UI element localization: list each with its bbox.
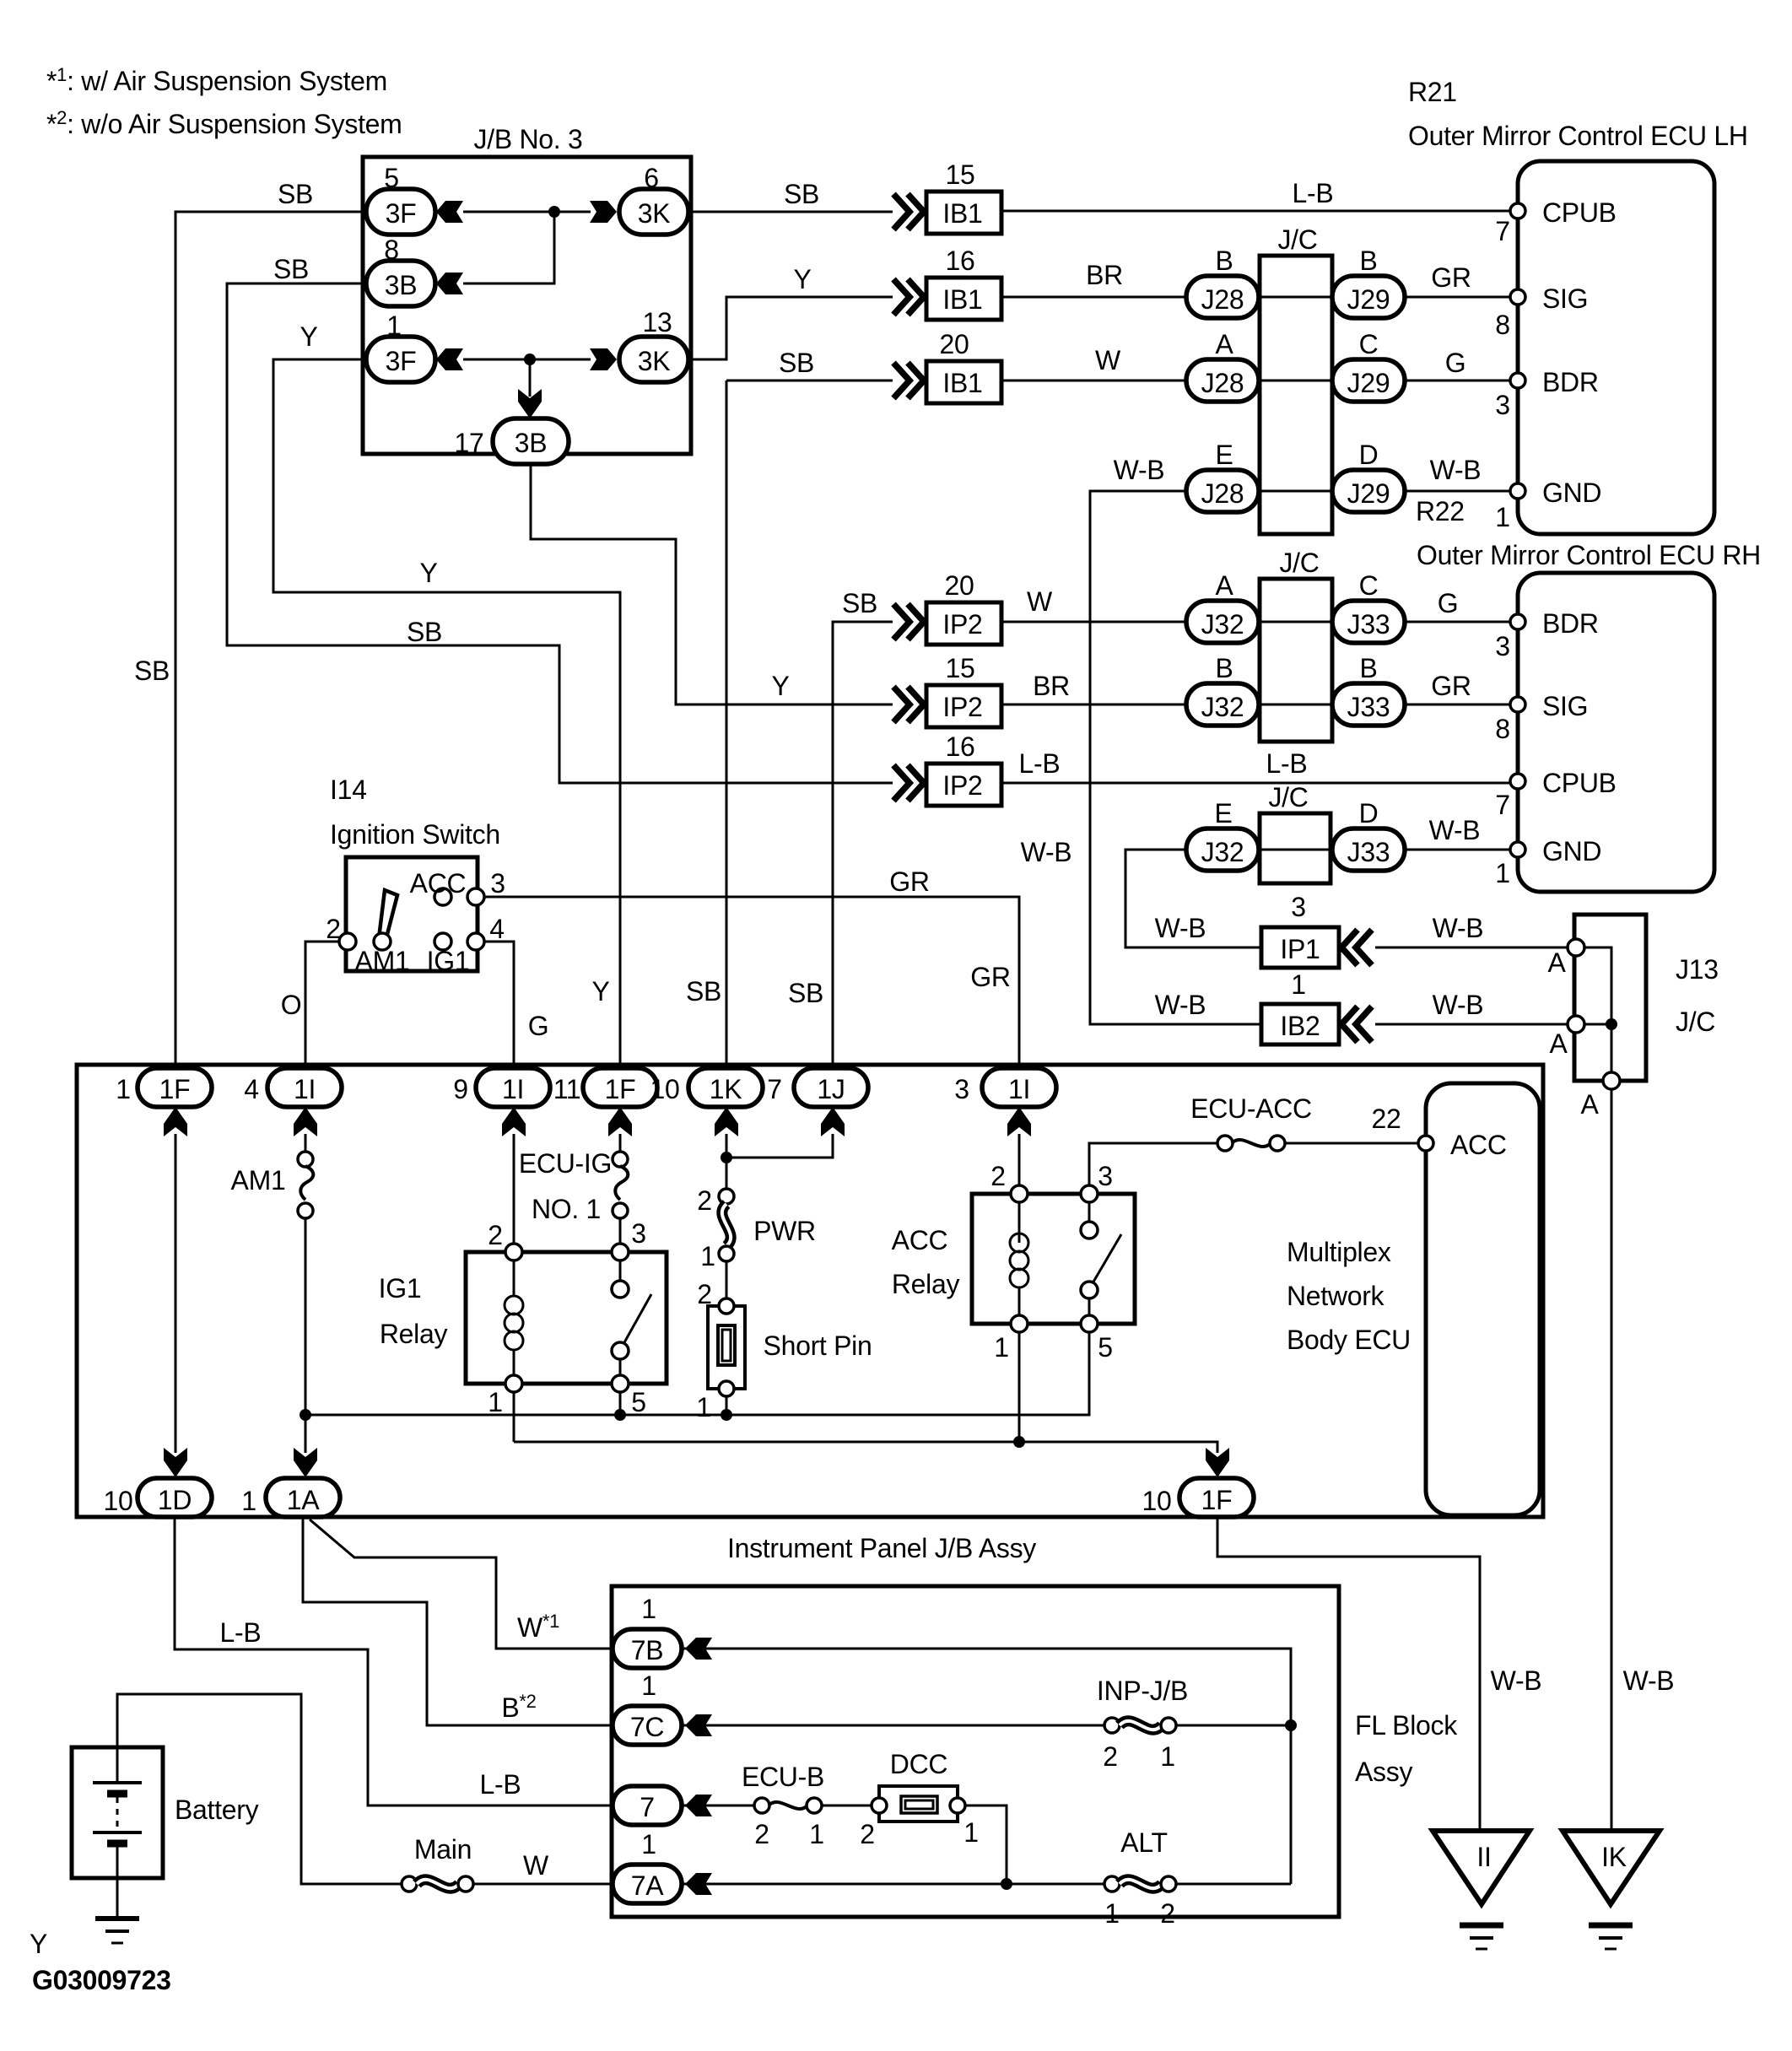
svg-text:1K: 1K <box>710 1074 742 1104</box>
svg-text:J13: J13 <box>1676 954 1719 985</box>
svg-text:J33: J33 <box>1347 837 1390 867</box>
svg-text:NO. 1: NO. 1 <box>532 1194 601 1224</box>
svg-text:11: 11 <box>553 1074 581 1104</box>
svg-text:BDR: BDR <box>1542 608 1599 639</box>
wire battery - to ground <box>116 1843 119 1919</box>
svg-text:SIG: SIG <box>1542 283 1588 314</box>
wire 1I-3 down to ACC relay pin 2 <box>1018 1134 1021 1190</box>
svg-text:5: 5 <box>384 163 399 193</box>
wire inside J/B: 3F-5 to 3K-6 <box>463 211 591 213</box>
svg-text:W: W <box>523 1850 549 1881</box>
receiving arrow at 3F-1 <box>436 348 463 370</box>
fuse ECU-IG NO.1 <box>619 1134 622 1152</box>
svg-text:GR: GR <box>1431 262 1471 293</box>
svg-text:Instrument Panel J/B Assy: Instrument Panel J/B Assy <box>727 1533 1036 1563</box>
svg-text:R22: R22 <box>1416 496 1465 526</box>
ACC relay coil <box>1018 1202 1021 1243</box>
svg-text:7C: 7C <box>630 1712 664 1742</box>
fuse ECU-B <box>754 1798 769 1813</box>
in-line connector IP2-16 <box>893 765 909 801</box>
svg-text:5: 5 <box>1098 1332 1113 1363</box>
wire W-B J13 to ground IK <box>1611 1089 1613 1831</box>
svg-text:A: A <box>1549 1028 1568 1059</box>
in-line connector IP2-20 <box>893 604 909 640</box>
svg-text:1: 1 <box>696 1392 711 1422</box>
FL pin 7 <box>613 1786 682 1825</box>
svg-text:B: B <box>1215 653 1233 683</box>
svg-text:L-B: L-B <box>480 1769 521 1800</box>
up arrow under 1I-4 <box>294 1107 317 1136</box>
svg-text:IB1: IB1 <box>942 198 982 229</box>
svg-text:Y: Y <box>771 671 789 701</box>
wire inside J13 <box>1576 947 1611 1081</box>
connector J33-B <box>1332 683 1405 726</box>
svg-text:7A: 7A <box>631 1870 664 1901</box>
svg-text:W-B: W-B <box>1433 990 1484 1020</box>
junction dot <box>548 206 560 218</box>
svg-text:ACC: ACC <box>1450 1130 1507 1160</box>
svg-text:L-B: L-B <box>1293 178 1334 208</box>
svg-text:INP-J/B: INP-J/B <box>1097 1676 1188 1706</box>
svg-text:3B: 3B <box>515 428 548 458</box>
wire battery + up and to Main fuse <box>117 1694 402 1884</box>
in-line connector IB1-15 <box>893 194 909 229</box>
svg-text:7: 7 <box>640 1792 655 1822</box>
junction dot <box>524 354 536 365</box>
svg-text:1: 1 <box>1104 1898 1120 1929</box>
ground II <box>1433 1831 1530 1904</box>
junction connector J/C box RH lower <box>1260 813 1331 883</box>
wire W-B IB2 to J13 pin A2 <box>1375 1023 1576 1026</box>
svg-text:W-B: W-B <box>1155 990 1206 1020</box>
svg-text:SB: SB <box>842 588 877 618</box>
svg-text:SB: SB <box>686 976 721 1007</box>
svg-text:1: 1 <box>386 310 402 341</box>
fuse PWR <box>719 1189 734 1204</box>
wire 7 to ECU-B fuse <box>683 1805 755 1807</box>
bus2 wire <box>514 1442 1217 1453</box>
svg-text:3: 3 <box>631 1218 646 1249</box>
svg-text:B: B <box>1215 246 1233 276</box>
svg-text:Battery: Battery <box>175 1795 259 1825</box>
svg-text:Outer Mirror Control ECU LH: Outer Mirror Control ECU LH <box>1408 121 1748 151</box>
svg-text:IB2: IB2 <box>1280 1011 1320 1041</box>
svg-text:PWR: PWR <box>753 1216 816 1246</box>
svg-text:3: 3 <box>1098 1161 1113 1191</box>
pin CPUB 7 <box>1510 774 1525 789</box>
svg-text:ECU-ACC: ECU-ACC <box>1190 1093 1312 1124</box>
svg-text:IP2: IP2 <box>942 692 982 722</box>
connector J32-B <box>1186 683 1259 726</box>
connector J32-E <box>1186 828 1259 871</box>
svg-text:Y: Y <box>30 1929 47 1959</box>
panel top pin 1J-7 <box>794 1068 868 1107</box>
svg-text:J33: J33 <box>1347 609 1390 640</box>
IG1 relay switch <box>619 1260 622 1281</box>
svg-text:B: B <box>1359 653 1377 683</box>
wire SB 1K-10 to IB1-20 <box>726 381 728 1070</box>
ACC relay switch <box>1088 1202 1091 1222</box>
switch lever <box>379 890 397 941</box>
svg-text:2: 2 <box>488 1220 503 1250</box>
wire O ignition AM1-2 to panel 1I-4 <box>305 942 340 1070</box>
svg-text:L-B: L-B <box>220 1617 262 1648</box>
svg-text:SB: SB <box>273 254 309 284</box>
wire W-B J32-E/J33-D to ECU RH GND <box>1185 849 1518 851</box>
J/B No. 3 junction block box <box>363 157 691 454</box>
svg-text:W-B: W-B <box>1491 1665 1542 1696</box>
svg-text:Network: Network <box>1287 1281 1385 1311</box>
pin BDR 3 <box>1510 373 1525 388</box>
svg-text:7: 7 <box>767 1074 782 1104</box>
wire W-B 1F-10 to ground II <box>1217 1517 1480 1831</box>
DCC component <box>879 1786 958 1822</box>
ignition pin 2 <box>339 933 356 950</box>
fuse ALT <box>1104 1876 1120 1892</box>
svg-text:DCC: DCC <box>890 1749 947 1779</box>
svg-text:J/C: J/C <box>1268 782 1308 812</box>
svg-text:1F: 1F <box>159 1074 191 1104</box>
svg-text:W: W <box>1027 586 1053 617</box>
wire PWR to short pin <box>726 1261 728 1299</box>
connector J28-E <box>1186 470 1259 512</box>
wire Y 3B-17 to IP2-15 <box>531 464 893 704</box>
svg-text:Outer Mirror Control ECU RH: Outer Mirror Control ECU RH <box>1417 540 1761 570</box>
fuse ECU-ACC <box>1217 1136 1233 1151</box>
svg-text:1: 1 <box>809 1819 824 1849</box>
svg-text:J28: J28 <box>1201 284 1244 315</box>
connector pin 3F-5 <box>366 189 435 235</box>
svg-text:G: G <box>1445 348 1466 378</box>
svg-text:3: 3 <box>490 868 505 899</box>
wire G ignition IG1-4 to panel 1I-9 <box>483 942 514 1070</box>
panel top pin 1K-10 <box>688 1068 763 1107</box>
svg-text:D: D <box>1359 798 1379 828</box>
svg-text:SIG: SIG <box>1542 691 1588 721</box>
in-line connector IP1 <box>1261 927 1339 968</box>
connector pin 3K-6 <box>619 189 688 235</box>
svg-text:3: 3 <box>1495 390 1510 420</box>
IG1 relay coil <box>513 1260 515 1297</box>
svg-text:BR: BR <box>1086 260 1123 290</box>
svg-text:Ignition Switch: Ignition Switch <box>330 819 500 850</box>
svg-text:1I: 1I <box>502 1074 524 1104</box>
svg-text:SB: SB <box>784 179 819 209</box>
svg-text:W-B: W-B <box>1021 837 1072 867</box>
in-line connector IP2-15 <box>893 687 909 722</box>
svg-text:W-B: W-B <box>1430 455 1482 485</box>
svg-text:1: 1 <box>1291 969 1306 1000</box>
svg-text:IB1: IB1 <box>942 368 982 398</box>
wire SB from 3B-8 to IP2-16 <box>227 283 893 783</box>
svg-text:I14: I14 <box>330 775 367 805</box>
wire fuse to multiplex pin 22 <box>1284 1142 1426 1145</box>
bus1 wire <box>305 1332 1089 1415</box>
svg-text:IG1: IG1 <box>379 1273 422 1303</box>
svg-text:1: 1 <box>1495 502 1510 532</box>
panel bottom pin 1D-10 <box>138 1478 212 1517</box>
panel top pin 1F-1 <box>138 1068 212 1107</box>
ignition switch box <box>346 857 478 971</box>
svg-text:2: 2 <box>990 1161 1006 1191</box>
svg-text:1I: 1I <box>1008 1074 1030 1104</box>
pin GND 1 <box>1510 842 1525 857</box>
svg-text:W-B: W-B <box>1433 913 1484 943</box>
svg-text:8: 8 <box>1495 714 1510 744</box>
svg-text:Y: Y <box>591 976 609 1007</box>
wire IG1 pin1 to bus2 <box>513 1392 515 1442</box>
connector J28-A <box>1186 359 1259 402</box>
wire DCC to 7A line <box>965 1805 1007 1884</box>
svg-text:SB: SB <box>134 656 170 686</box>
svg-text:1F: 1F <box>1201 1485 1233 1515</box>
svg-text:1F: 1F <box>605 1074 636 1104</box>
svg-text:ACC: ACC <box>410 868 467 899</box>
svg-text:R21: R21 <box>1408 77 1457 107</box>
svg-text:1: 1 <box>994 1332 1009 1363</box>
svg-text:10: 10 <box>650 1074 680 1104</box>
wire 7C to INP-J/B fuse and junction <box>683 1724 1105 1727</box>
ignition pin IG1 <box>435 933 451 950</box>
pin CPUB 7 <box>1510 203 1525 219</box>
svg-text:CPUB: CPUB <box>1542 768 1617 798</box>
svg-text:W: W <box>1095 345 1121 375</box>
svg-text:J29: J29 <box>1347 478 1390 509</box>
svg-text:Multiplex: Multiplex <box>1287 1237 1391 1267</box>
svg-text:13: 13 <box>643 307 672 337</box>
svg-text:L-B: L-B <box>1019 748 1061 779</box>
wire Y 3K-13 to IB1-16 <box>691 297 893 359</box>
svg-text:1A: 1A <box>287 1485 320 1515</box>
svg-text:1: 1 <box>641 1670 656 1701</box>
down arrow above 1D-10 <box>164 1448 187 1477</box>
svg-text:CPUB: CPUB <box>1542 197 1617 228</box>
svg-text:1: 1 <box>700 1241 715 1271</box>
svg-text:ECU-IG: ECU-IG <box>519 1148 612 1179</box>
svg-text:1: 1 <box>488 1387 503 1417</box>
svg-text:BDR: BDR <box>1542 367 1599 397</box>
pin GND 1 <box>1510 483 1525 499</box>
svg-text:FL Block: FL Block <box>1355 1710 1458 1741</box>
svg-text:BR: BR <box>1033 671 1070 701</box>
svg-text:AM1: AM1 <box>231 1165 286 1196</box>
svg-text:1J: 1J <box>817 1074 845 1104</box>
junction connector J13 box <box>1574 915 1646 1081</box>
svg-text:3F: 3F <box>386 198 417 229</box>
svg-text:*1: w/ Air Suspension System: *1: w/ Air Suspension System <box>46 64 387 96</box>
svg-text:C: C <box>1359 329 1379 359</box>
junction connector J/C box RH upper <box>1260 579 1332 742</box>
svg-text:Relay: Relay <box>380 1319 448 1349</box>
svg-text:ECU-B: ECU-B <box>742 1762 824 1792</box>
svg-text:J/C: J/C <box>1279 548 1319 578</box>
svg-text:2: 2 <box>1160 1898 1175 1929</box>
wire W IP2-20 to J32-A <box>1001 621 1187 623</box>
up arrow under 1F-11 <box>608 1107 632 1136</box>
svg-text:17: 17 <box>455 428 484 458</box>
wire G J32-A/J33-C to ECU RH BDR <box>1187 621 1518 623</box>
svg-text:J28: J28 <box>1201 478 1244 509</box>
ECU LH box <box>1518 161 1714 534</box>
panel top pin 1F-11 <box>583 1068 657 1107</box>
IG1 relay pins <box>505 1244 522 1260</box>
wire 7A to ALT fuse <box>683 1883 1105 1886</box>
svg-text:3: 3 <box>1495 631 1510 661</box>
svg-text:5: 5 <box>631 1387 646 1417</box>
wire IG1 pin5 to bus1 <box>619 1392 622 1415</box>
svg-text:IP1: IP1 <box>1280 934 1320 964</box>
connector pin 3B-8 <box>366 261 435 306</box>
connector J29-B <box>1332 276 1405 318</box>
svg-text:16: 16 <box>946 731 975 762</box>
ground IK <box>1563 1831 1660 1904</box>
svg-text:Y: Y <box>300 321 317 352</box>
wire inside panel 1F-1 to 1D-10 <box>175 1134 177 1453</box>
svg-text:Y: Y <box>793 264 811 294</box>
svg-text:AM1: AM1 <box>355 946 410 976</box>
svg-text:J29: J29 <box>1347 368 1390 398</box>
wire BR IB1-16 to J28-B <box>1001 296 1187 299</box>
down arrow above 1F-10 <box>1206 1448 1229 1477</box>
panel bottom pin 1A-1 <box>266 1478 340 1517</box>
pin A top of J13 <box>1568 939 1584 956</box>
svg-text:8: 8 <box>384 235 399 265</box>
connector pin 3B-17 <box>493 418 569 464</box>
wire Y from 3F-1 to panel 1F-11 <box>273 359 620 1070</box>
ignition pin AM1 <box>374 933 391 950</box>
battery box <box>72 1747 163 1878</box>
wire W-B IP1 to J13 pin A <box>1375 947 1576 949</box>
svg-text:G: G <box>1438 588 1459 618</box>
svg-text:7: 7 <box>1495 216 1510 246</box>
pin SIG 8 <box>1510 697 1525 712</box>
svg-text:J/C: J/C <box>1676 1007 1715 1037</box>
svg-text:IP2: IP2 <box>942 770 982 801</box>
ACC relay box <box>972 1194 1135 1324</box>
pin SIG 8 <box>1510 289 1525 305</box>
wire W*1 1A-1 to FL 7B <box>310 1519 613 1649</box>
svg-text:W-B: W-B <box>1429 815 1481 845</box>
up arrow under 1K-10 <box>715 1107 738 1136</box>
connector J28-B <box>1186 276 1259 318</box>
in-line connector IB1-16 <box>893 279 909 315</box>
svg-text:3K: 3K <box>638 198 671 229</box>
svg-text:15: 15 <box>946 159 975 190</box>
svg-text:Relay: Relay <box>892 1269 960 1299</box>
multiplex network body ECU box <box>1426 1083 1540 1515</box>
svg-text:IK: IK <box>1601 1842 1627 1872</box>
svg-text:2: 2 <box>697 1185 712 1216</box>
svg-text:SB: SB <box>407 617 442 647</box>
svg-text:G: G <box>528 1011 549 1041</box>
svg-text:SB: SB <box>779 348 814 378</box>
svg-text:10: 10 <box>104 1486 133 1516</box>
connector pin 3F-1 <box>366 337 435 382</box>
svg-text:J28: J28 <box>1201 368 1244 398</box>
svg-text:3: 3 <box>1291 892 1306 922</box>
svg-text:J32: J32 <box>1201 837 1244 867</box>
svg-text:D: D <box>1359 440 1379 470</box>
svg-text:15: 15 <box>946 653 975 683</box>
fuse INP-J/B <box>1104 1718 1120 1733</box>
branch to 1J-7 <box>726 1134 833 1158</box>
svg-text:16: 16 <box>946 246 975 276</box>
svg-text:W-B: W-B <box>1114 455 1165 485</box>
FL pin 7B <box>613 1629 682 1668</box>
wire L-B IP2-16 to ECU RH CPUB <box>1001 782 1518 785</box>
sending arrow at 3K-13 <box>590 348 617 370</box>
instrument panel J/B assy box <box>77 1065 1543 1517</box>
FL block assy box <box>612 1586 1339 1917</box>
svg-text:G03009723: G03009723 <box>32 1965 171 1995</box>
svg-text:IP2: IP2 <box>942 609 982 640</box>
sending arrow at 3K-6 <box>590 201 617 223</box>
svg-text:O: O <box>281 990 302 1020</box>
svg-text:4: 4 <box>244 1074 259 1104</box>
in-line connector IB1-20 <box>893 363 909 398</box>
up arrow under 1F-1 <box>164 1107 187 1136</box>
svg-text:4: 4 <box>489 914 505 944</box>
wire W Main fuse to FL 7A <box>473 1883 613 1886</box>
svg-text:1: 1 <box>641 1829 656 1859</box>
svg-text:9: 9 <box>453 1074 468 1104</box>
svg-text:Y: Y <box>419 558 437 588</box>
connector J33-D <box>1332 828 1405 871</box>
panel top pin 1I-4 <box>267 1068 342 1107</box>
svg-text:W-B: W-B <box>1623 1665 1675 1696</box>
in-line connector IB2 <box>1261 1004 1339 1044</box>
junction connector J/C box LH <box>1260 256 1332 534</box>
svg-text:Assy: Assy <box>1355 1757 1412 1787</box>
pin A bottom of J13 <box>1603 1072 1620 1089</box>
svg-text:GND: GND <box>1542 478 1601 508</box>
svg-text:8: 8 <box>1495 310 1510 340</box>
wire inside J/B: branch down to 3B-17 <box>529 359 532 397</box>
wire short pin to bus1 <box>726 1396 728 1415</box>
wire SB from 3F-5 to panel 1F-1 <box>175 212 366 1070</box>
battery cell symbol <box>116 1747 119 1783</box>
svg-text:A: A <box>1580 1089 1599 1120</box>
FL pin 7C <box>613 1706 682 1745</box>
wire 7B to right loop <box>683 1649 1291 1884</box>
svg-text:A: A <box>1215 570 1233 601</box>
IG1 relay box <box>466 1252 667 1384</box>
battery ground symbol <box>95 1916 139 1921</box>
svg-text:1D: 1D <box>158 1485 192 1515</box>
down arrow above 1A-1 <box>294 1448 317 1477</box>
wire L-B IB1-15 to ECU LH CPUB <box>1001 210 1518 213</box>
wire 1K-10 down, PWR fuse chain <box>726 1134 728 1190</box>
svg-text:2: 2 <box>1103 1741 1118 1772</box>
wire SB 3K-6 to IB1-15 <box>691 211 893 213</box>
fuse Main <box>402 1876 417 1892</box>
svg-text:Body ECU: Body ECU <box>1287 1325 1411 1355</box>
svg-text:J29: J29 <box>1347 284 1390 315</box>
pin BDR 3 <box>1510 614 1525 629</box>
wire L-B 1D-10 to FL 7 <box>175 1517 613 1805</box>
wire fuse to DCC <box>821 1805 879 1807</box>
svg-text:GR: GR <box>1431 671 1471 701</box>
panel bottom pin 1F-10 <box>1179 1478 1254 1517</box>
svg-text:22: 22 <box>1372 1104 1401 1134</box>
wire fuse to relay pin 3 <box>619 1217 622 1249</box>
wire W-B J32-E to IP1 <box>1125 850 1261 947</box>
wire W-B J28-E/J29-D to ECU LH GND, down to IB2 <box>1090 491 1518 1024</box>
svg-text:1: 1 <box>116 1074 131 1104</box>
svg-text:3F: 3F <box>386 346 417 376</box>
FL pin 7A <box>613 1865 682 1903</box>
wire GR ignition ACC-3 to panel 1I-3 <box>483 897 1019 1070</box>
